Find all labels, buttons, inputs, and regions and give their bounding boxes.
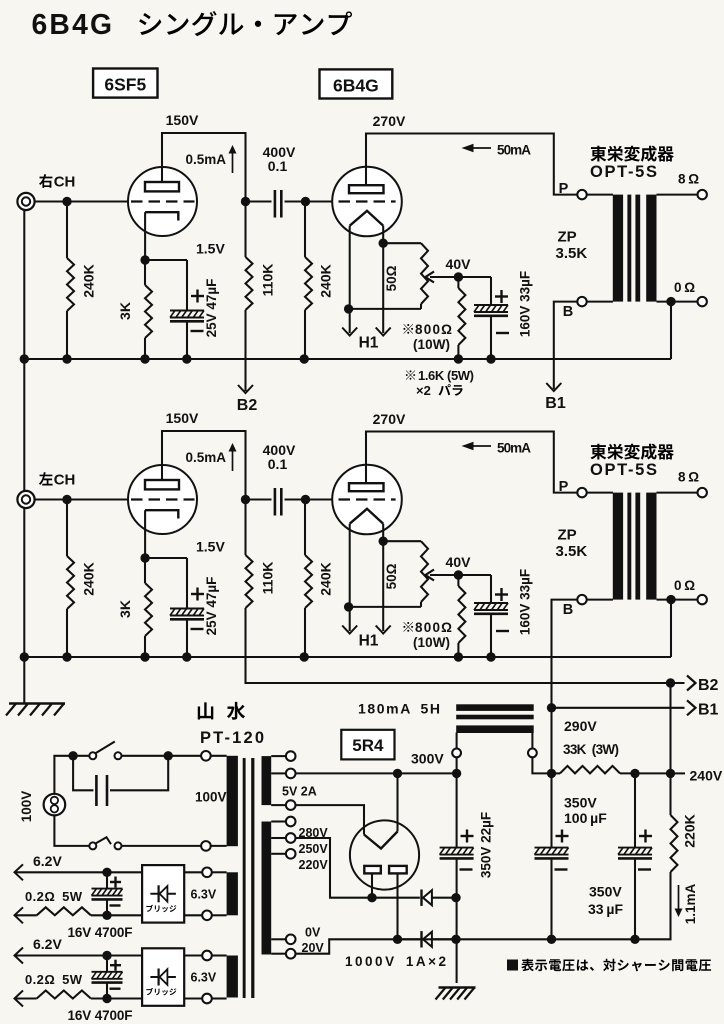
node filter cap bottom — [102, 994, 111, 1003]
label ブリッジ — [146, 988, 153, 995]
V1 plate — [145, 182, 179, 191]
chassis ground (PSU) — [439, 986, 476, 988]
resistor 800 ohm cathode bias (see note) — [457, 277, 459, 288]
terminal 5V top (unused tap) — [286, 751, 296, 761]
svg-text:CH: CH — [54, 471, 76, 488]
svg-text:P: P — [559, 181, 569, 197]
svg-text:240K: 240K — [318, 264, 334, 297]
node grid leak to rail — [300, 652, 309, 661]
arrow H1 right — [376, 328, 391, 336]
V1 plate — [145, 480, 179, 489]
node diode 1 to ground bus — [451, 893, 460, 902]
switch pole 1 — [89, 752, 96, 759]
terminal B of OPT — [577, 595, 586, 604]
terminal 5V bottom — [286, 800, 296, 810]
node spark cap right — [164, 751, 173, 760]
V2 grid (dashed) — [339, 498, 396, 500]
resistor 220K bleeder — [669, 773, 671, 815]
node coupling/plate-load junction — [241, 495, 250, 504]
capacitor 16V 4700F filter — [106, 956, 108, 972]
wire 110K down to B2 rail — [246, 608, 251, 683]
svg-text:0 Ω: 0 Ω — [674, 578, 695, 593]
wire V2 plate to OPT primary, 270V — [366, 432, 577, 493]
arrow to B2 — [238, 385, 253, 393]
switch pole 2 — [89, 842, 96, 849]
svg-text:×2: ×2 — [416, 383, 431, 398]
svg-text:150V: 150V — [166, 410, 199, 426]
node input/grid-resistor junction — [62, 197, 71, 206]
tube V5 5R4 rectifier envelope — [350, 820, 419, 889]
pot wiper arrow — [430, 574, 458, 576]
svg-text:B: B — [563, 602, 573, 618]
svg-text:OPT-5S: OPT-5S — [590, 163, 657, 181]
resistor 3K cathode bias — [144, 558, 146, 583]
node 3K to rail — [140, 652, 149, 661]
svg-text:P: P — [559, 479, 569, 495]
node 300V / 22uF junction — [452, 769, 461, 778]
terminal primary top — [201, 751, 211, 761]
terminal 6.3V winding 2 bottom — [202, 994, 212, 1004]
V1 cathode — [145, 510, 178, 518]
node B2 to 240V dropper — [666, 678, 675, 687]
wire 6.3V DC out top — [16, 871, 142, 873]
PT-120 5V winding bar — [262, 756, 272, 805]
svg-text:270V: 270V — [373, 113, 406, 129]
annotation 50mA arrow — [471, 147, 491, 149]
V1 grid (dashed) — [131, 498, 195, 500]
resistor 240K (input grid leak) — [66, 202, 68, 259]
input jack 右CH (right channel) — [17, 193, 34, 210]
svg-text:6B4G: 6B4G — [32, 8, 115, 40]
svg-text:B2: B2 — [698, 677, 719, 694]
pot wiper arrow — [430, 276, 458, 278]
wire input to V1 grid — [35, 498, 129, 500]
svg-text:1.1mA: 1.1mA — [683, 883, 698, 924]
wire filament right arm drop — [396, 773, 398, 831]
V1 grid (dashed) — [131, 200, 195, 202]
node cathode junction — [140, 255, 149, 264]
svg-text:110K: 110K — [260, 562, 276, 595]
wire 0 ohm to ground rail — [670, 302, 672, 359]
capacitor 350V 33uF — [634, 773, 636, 847]
svg-text:3.5K: 3.5K — [556, 543, 588, 560]
node 33uF to ground rail — [486, 354, 495, 363]
tube V1 6SF5 envelope — [128, 167, 197, 236]
wire plug to switch (top) — [54, 756, 89, 794]
resistor 240K grid leak of V2 — [304, 500, 306, 556]
svg-text:0.5mA: 0.5mA — [185, 450, 226, 465]
svg-text:6.3V: 6.3V — [191, 971, 217, 985]
node 290V junction — [547, 769, 556, 778]
wire right plate down — [396, 873, 398, 939]
svg-text:100V: 100V — [19, 791, 34, 823]
capacitor 25V 47uF cathode bypass — [145, 259, 187, 261]
tube V1 6SF5 envelope — [128, 465, 197, 534]
svg-text:3.5K: 3.5K — [556, 245, 588, 262]
svg-text:250V: 250V — [299, 842, 329, 856]
potentiometer 50 ohm hum balance — [383, 540, 421, 542]
node filter cap top — [102, 951, 111, 960]
wire filament left leg to H1 — [349, 226, 351, 333]
wires bridge to 6.3V winding — [184, 871, 203, 873]
node V2 grid junction — [301, 197, 310, 206]
wire filament left leg to H1 — [349, 524, 351, 631]
svg-text:OPT-5S: OPT-5S — [590, 461, 657, 479]
node B1 line start — [547, 703, 556, 712]
node filament left / hum pot bottom — [344, 602, 353, 611]
wire B to B1 supply — [554, 302, 578, 389]
svg-text:B: B — [563, 304, 573, 320]
wire 5V bottom to rectifier filament — [295, 805, 364, 834]
wire choke left to 300V node — [456, 757, 458, 773]
terminal 280V tap — [286, 817, 296, 827]
svg-text:240K: 240K — [81, 562, 97, 595]
terminal B of OPT — [577, 297, 586, 306]
wire switch to primary terminal (bottom) — [122, 845, 202, 847]
svg-text:40V: 40V — [446, 554, 472, 570]
svg-text:100 µF: 100 µF — [564, 810, 607, 826]
arrow B1 — [687, 700, 696, 715]
capacitor 0.1uF 400V coupling — [246, 200, 272, 202]
tube V2 6B4G envelope — [332, 167, 402, 237]
capacitor 350V 100uF — [550, 847, 552, 849]
potentiometer 50 ohm hum balance — [383, 242, 421, 244]
wire B2 down to 240V node — [669, 683, 671, 773]
label box 6SF5 — [93, 69, 157, 98]
capacitor 16V 4700F filter — [106, 872, 108, 888]
svg-text:1.5V: 1.5V — [196, 539, 225, 555]
terminal primary bottom — [201, 841, 211, 851]
node 0-ohm ground junction — [666, 595, 675, 604]
svg-text:150V: 150V — [166, 112, 199, 128]
label 東栄変成器 OPT-5S — [590, 444, 606, 460]
label box 6B4G — [320, 69, 393, 98]
wire filament right leg to H1 — [382, 524, 384, 631]
wire OPT secondary bottom to 0 ohm — [657, 301, 698, 303]
wire 240V stub — [671, 772, 686, 774]
terminal 5V center (300V output) — [286, 769, 296, 779]
resistor 0.2 ohm 5W — [16, 997, 37, 999]
node filament right / hum pot top — [379, 239, 388, 248]
wire plug to switch (bottom) — [54, 815, 89, 846]
capacitor 160V 33uF cathode bypass — [458, 276, 491, 278]
svg-text:290V: 290V — [564, 718, 597, 734]
AC plug 100V — [44, 794, 66, 816]
node ground bus on return — [451, 935, 460, 944]
svg-text:350V: 350V — [589, 884, 622, 900]
node 40V wiper junction — [454, 272, 463, 281]
B1 rail to arrow — [552, 707, 685, 709]
svg-text:CH: CH — [54, 173, 76, 190]
ground rail ch2 — [24, 656, 671, 658]
annotation 0.5mA plate current arrow — [232, 152, 234, 173]
main B+ vertical (B terminal ch2 to 100uF) — [550, 708, 552, 848]
wire V2 plate to OPT primary, 270V — [366, 134, 577, 195]
svg-text:8 Ω: 8 Ω — [678, 470, 699, 485]
svg-text:1.6K (5W): 1.6K (5W) — [418, 368, 474, 383]
svg-text:6B4G: 6B4G — [333, 76, 379, 96]
tube V2 6B4G envelope — [332, 465, 402, 535]
diode 2 (1000V 1A) — [398, 938, 420, 940]
diode 1 (1000V 1A) — [372, 897, 420, 899]
svg-text:0.1: 0.1 — [268, 158, 288, 174]
label ブリッジ — [146, 905, 153, 912]
node 33uF bottom — [630, 935, 639, 944]
node coupling/plate-load junction — [241, 197, 250, 206]
wire 220K to return rail — [668, 872, 671, 939]
capacitor 350V 22uF — [456, 773, 458, 847]
return rail (0V) — [392, 938, 668, 940]
ground bus below 22uF — [456, 858, 458, 983]
node rectifier filament to 300V line — [393, 769, 402, 778]
svg-text:25V 47µF: 25V 47µF — [204, 279, 219, 338]
ground rail ch1 — [24, 358, 671, 360]
svg-text:25V 47µF: 25V 47µF — [204, 577, 219, 636]
svg-text:B2: B2 — [237, 397, 258, 414]
label 左CH — [39, 472, 53, 485]
wire 300V line from 5V winding to choke — [295, 772, 457, 774]
terminal 0V tap — [286, 935, 296, 945]
svg-text:6.2V: 6.2V — [33, 936, 62, 952]
wire V1 cathode to bias network — [144, 212, 146, 260]
V2 plate — [349, 185, 384, 193]
resistor 240K grid leak of V2 — [304, 202, 306, 258]
svg-text:33 µF: 33 µF — [588, 901, 623, 917]
svg-text:B1: B1 — [545, 395, 566, 412]
node 100uF bottom — [547, 935, 556, 944]
svg-text:16V 4700F: 16V 4700F — [68, 925, 133, 940]
svg-text:0V: 0V — [305, 926, 321, 940]
svg-text:240K: 240K — [318, 562, 334, 595]
capacitor 0.1uF 400V coupling — [246, 498, 272, 500]
V5 filament V — [364, 832, 398, 849]
svg-text:5R4: 5R4 — [352, 736, 384, 755]
node bypass cap to rail — [182, 652, 191, 661]
V1 cathode — [145, 212, 178, 220]
V5 plate left — [364, 866, 381, 874]
chassis ground (input bus) — [9, 702, 65, 704]
svg-text:0.1: 0.1 — [268, 456, 288, 472]
wire left ground bus (input jacks to chassis) — [23, 205, 25, 704]
node 40V wiper junction — [454, 570, 463, 579]
V5 plate right — [389, 866, 407, 874]
annotation 1.6K 5W x2 parallel option — [406, 370, 415, 379]
bridge rectifier 1 — [142, 865, 184, 923]
V2 plate — [349, 483, 384, 491]
label 山水 PT-120 power transformer — [198, 702, 214, 719]
wire switch to primary terminal (top) — [122, 755, 202, 757]
node rail left corner — [20, 652, 29, 661]
wire V1 plate to coupling node, 150V — [162, 431, 246, 498]
svg-text:H1: H1 — [359, 335, 379, 352]
node filter cap bottom — [102, 911, 111, 920]
node spark cap left — [68, 751, 77, 760]
input jack 左CH (left channel) — [17, 491, 34, 508]
wire 6.3V DC out top — [16, 954, 142, 956]
arrow H1 left — [342, 328, 357, 336]
svg-text:350V 22µF: 350V 22µF — [479, 812, 494, 878]
terminal 220V tap — [286, 849, 296, 859]
svg-text:0 Ω: 0 Ω — [674, 280, 695, 295]
PT-120 6.3V winding bar 2 — [227, 956, 238, 998]
node filament right / hum pot top — [379, 537, 388, 546]
terminal 0 ohm — [698, 595, 707, 604]
svg-text:160V 33µF: 160V 33µF — [518, 569, 533, 635]
resistor 110K plate load — [244, 500, 246, 556]
arrow B2 — [687, 676, 696, 691]
PT-120 primary winding bar — [227, 756, 238, 846]
label 右CH — [39, 174, 52, 188]
wire 20V tap to rectifier return — [295, 939, 392, 953]
wire 250V tap to rectifier plate — [295, 838, 369, 898]
V2 filament — [350, 509, 384, 524]
arrow H1 left — [342, 626, 357, 634]
node V2 grid junction — [301, 495, 310, 504]
arrow heater + lead — [15, 864, 24, 880]
wire V1 cathode to bias network — [144, 510, 146, 558]
svg-text:3K: 3K — [117, 600, 133, 618]
node 800ohm to ground rail — [454, 652, 463, 661]
node 240K to rail — [62, 652, 71, 661]
label 5R4 box — [341, 730, 394, 760]
choke terminal left — [452, 749, 461, 758]
wire grid junction to V2 — [306, 498, 333, 500]
svg-text:160V 33µF: 160V 33µF — [518, 271, 533, 337]
wire OPT secondary top to 8 ohm — [657, 194, 698, 196]
wire 110K to B2 feed arrow — [244, 310, 246, 391]
wire filament right leg to H1 — [382, 226, 384, 333]
terminal 250V tap — [286, 833, 296, 843]
wire 0 ohm to ground rail — [670, 600, 672, 657]
node 3K to rail — [140, 354, 149, 363]
choke 180mA 5H — [456, 704, 534, 711]
svg-text:33K (3W): 33K (3W) — [563, 742, 619, 757]
svg-text:240K: 240K — [81, 264, 97, 297]
wire B to B1 supply — [552, 600, 578, 708]
node right plate / return line — [393, 935, 402, 944]
bridge rectifier 2 — [142, 948, 184, 1006]
node bypass cap to rail — [182, 354, 191, 363]
node 240K to rail — [62, 354, 71, 363]
wire OPT secondary bottom to 0 ohm — [657, 599, 698, 601]
node filter cap top — [102, 868, 111, 877]
node left plate / diode line — [367, 893, 376, 902]
node cathode junction — [140, 553, 149, 562]
annotation 0.5mA plate current arrow — [232, 450, 234, 471]
svg-text:0.5mA: 0.5mA — [185, 152, 226, 167]
node 33uF to ground rail — [486, 652, 495, 661]
svg-text:50mA: 50mA — [497, 441, 531, 456]
resistor 3K cathode bias — [144, 260, 146, 285]
svg-text:ZP: ZP — [558, 527, 577, 544]
transformer OPT-5S output ch2 — [577, 488, 586, 497]
wire grid junction to V2 — [306, 200, 333, 202]
PT-120 HT winding bar — [262, 822, 272, 955]
svg-text:220V: 220V — [299, 858, 329, 872]
wire choke right to 290V node — [532, 757, 551, 773]
label 東栄変成器 OPT-5S — [590, 146, 606, 162]
node grid leak to rail — [300, 354, 309, 363]
B2 rail — [250, 682, 685, 684]
svg-text:ZP: ZP — [558, 229, 577, 246]
node 240V — [666, 769, 675, 778]
svg-text:1.5V: 1.5V — [196, 241, 225, 257]
resistor 0.2 ohm 5W — [16, 914, 37, 916]
resistor 240K (input grid leak) — [66, 500, 68, 557]
svg-text:0.2Ω 5W: 0.2Ω 5W — [25, 889, 83, 904]
resistor 800 ohm cathode bias (see note) — [457, 575, 459, 586]
terminal 8 ohm — [698, 190, 707, 199]
svg-text:100V: 100V — [195, 790, 227, 805]
svg-text:50mA: 50mA — [497, 143, 531, 158]
wire input to V1 grid — [35, 200, 129, 202]
choke terminal right — [528, 749, 537, 758]
resistor 33K 3W dropper — [560, 766, 620, 774]
svg-text:6.3V: 6.3V — [191, 888, 217, 902]
V2 filament — [350, 211, 384, 226]
node input/grid-resistor junction — [62, 495, 71, 504]
arrow to B1 — [546, 383, 561, 391]
svg-text:5V 2A: 5V 2A — [282, 785, 317, 799]
wire OPT secondary top to 8 ohm — [657, 492, 698, 494]
PT-120 6.3V winding bar 1 — [227, 872, 238, 915]
svg-text:6.2V: 6.2V — [33, 853, 62, 869]
capacitor 160V 33uF cathode bypass — [458, 574, 491, 576]
svg-text:350V: 350V — [564, 795, 597, 811]
svg-text:240V: 240V — [690, 768, 723, 784]
arrow heater - lead — [15, 907, 24, 923]
svg-text:800Ω: 800Ω — [415, 620, 452, 635]
svg-text:50Ω: 50Ω — [384, 265, 399, 291]
resistor 110K plate load — [244, 202, 246, 258]
node filament left / hum pot bottom — [344, 304, 353, 313]
terminal 6.3V winding 2 top — [202, 951, 212, 961]
node 0-ohm ground junction — [666, 297, 675, 306]
capacitor across switch — [73, 756, 93, 791]
terminal 8 ohm — [698, 488, 707, 497]
svg-text:(10W): (10W) — [413, 337, 450, 352]
terminal 0 ohm — [698, 297, 707, 306]
wire V1 plate to coupling node, 150V — [162, 133, 246, 200]
svg-text:PT-120: PT-120 — [200, 729, 264, 747]
capacitor 25V 47uF cathode bypass — [145, 557, 187, 559]
svg-text:50Ω: 50Ω — [384, 563, 399, 589]
svg-text:8 Ω: 8 Ω — [678, 172, 699, 187]
wire left plate down — [371, 873, 373, 897]
svg-text:H1: H1 — [359, 633, 379, 650]
arrow heater - lead — [15, 991, 24, 1007]
svg-text:(10W): (10W) — [413, 635, 450, 650]
arrow H1 right — [376, 626, 391, 634]
terminal 6.3V winding 1 bottom — [202, 911, 212, 921]
V2 grid (dashed) — [339, 200, 396, 202]
annotation 50mA arrow — [471, 445, 491, 447]
svg-text:800Ω: 800Ω — [415, 322, 452, 337]
svg-text:B1: B1 — [698, 702, 719, 719]
terminal 6.3V winding 1 top — [202, 868, 212, 878]
svg-text:270V: 270V — [373, 411, 406, 427]
svg-text:6SF5: 6SF5 — [104, 75, 146, 95]
note: displayed voltages are to chassis — [507, 960, 518, 971]
transformer PT-120 core — [243, 758, 246, 998]
svg-text:3K: 3K — [117, 302, 133, 320]
node 33K to 33uF — [630, 769, 639, 778]
node rail left corner — [20, 354, 29, 363]
node 800ohm to ground rail — [454, 354, 463, 363]
svg-text:110K: 110K — [260, 264, 276, 297]
transformer OPT-5S output ch1 — [577, 190, 586, 199]
svg-text:220K: 220K — [682, 814, 698, 847]
